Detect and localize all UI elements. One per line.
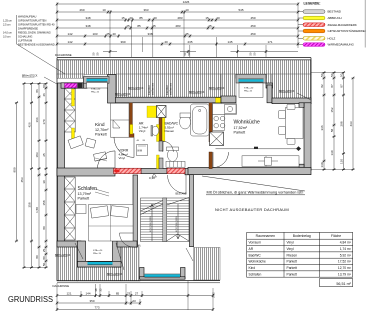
svg-text:50: 50 <box>96 52 100 55</box>
svg-text:25: 25 <box>42 153 46 157</box>
svg-text:GIPSKARTONPLATTEN: GIPSKARTONPLATTEN <box>18 19 47 23</box>
svg-text:Parkett: Parkett <box>287 260 298 264</box>
svg-text:LEGENDE:: LEGENDE: <box>304 2 321 6</box>
svg-text:17,52m²: 17,52m² <box>234 126 248 130</box>
svg-text:entfernen: entfernen <box>169 82 173 95</box>
svg-text:390: 390 <box>120 40 125 44</box>
svg-text:121: 121 <box>66 292 71 296</box>
svg-text:Fläche: Fläche <box>331 234 341 238</box>
svg-text:158: 158 <box>42 200 46 205</box>
svg-text:50: 50 <box>340 73 344 77</box>
svg-text:20: 20 <box>216 16 220 20</box>
svg-text:40: 40 <box>164 40 168 44</box>
svg-text:Raumnamen: Raumnamen <box>256 234 276 238</box>
svg-text:0,30: 0,30 <box>149 176 155 180</box>
svg-text:entfernen: entfernen <box>151 82 155 95</box>
svg-text:80: 80 <box>42 256 46 260</box>
svg-text:260: 260 <box>79 8 84 12</box>
svg-text:130: 130 <box>340 159 344 164</box>
svg-text:171: 171 <box>267 40 272 44</box>
svg-text:363: 363 <box>143 8 148 12</box>
svg-text:87: 87 <box>340 84 344 88</box>
svg-text:23: 23 <box>132 299 136 303</box>
svg-text:50: 50 <box>253 52 257 55</box>
svg-text:12,70 m²: 12,70 m² <box>338 266 352 270</box>
svg-text:10: 10 <box>102 8 106 12</box>
svg-text:3,0 cm: 3,0 cm <box>3 35 11 38</box>
svg-text:BESTAND: BESTAND <box>176 192 187 195</box>
svg-text:450: 450 <box>250 16 255 20</box>
svg-text:25: 25 <box>126 24 130 28</box>
svg-text:25: 25 <box>185 32 189 36</box>
svg-text:50: 50 <box>42 84 46 88</box>
svg-text:WANDAUFBAU: WANDAUFBAU <box>18 15 36 19</box>
svg-text:Mit Öl üblichen, di ganz Wärme: Mit Öl üblichen, di ganz Wärmedämmung vo… <box>207 191 304 195</box>
svg-text:Bodenbelag: Bodenbelag <box>293 234 311 238</box>
svg-text:Fliesen: Fliesen <box>287 253 298 257</box>
svg-text:2,5 cm: 2,5 cm <box>3 24 11 27</box>
svg-text:STB=+20: STB=+20 <box>93 250 103 252</box>
svg-text:56,51 m²: 56,51 m² <box>336 282 351 286</box>
svg-text:W.M: W.M <box>137 149 142 152</box>
svg-text:AR: AR <box>249 247 254 251</box>
svg-text:STB=+20: STB=+20 <box>244 87 254 89</box>
svg-text:Parkett: Parkett <box>287 266 298 270</box>
svg-text:27: 27 <box>135 292 139 296</box>
svg-text:4,84 m²: 4,84 m² <box>340 241 352 245</box>
svg-text:336: 336 <box>320 125 324 130</box>
svg-text:DACHRINNE: DACHRINNE <box>55 53 72 57</box>
svg-text:WÄRMEDÄMMUNG: WÄRMEDÄMMUNG <box>328 43 355 47</box>
svg-text:85: 85 <box>137 24 141 28</box>
svg-text:545: 545 <box>238 8 243 12</box>
svg-text:85: 85 <box>116 292 120 296</box>
svg-text:348: 348 <box>85 24 90 28</box>
svg-text:Wohnküche: Wohnküche <box>234 120 261 126</box>
svg-text:235: 235 <box>187 40 192 44</box>
svg-text:STB=+20: STB=+20 <box>91 88 101 90</box>
svg-text:ABBRUCH: ABBRUCH <box>328 16 342 20</box>
svg-text:Vinyl: Vinyl <box>119 156 126 160</box>
svg-text:142: 142 <box>67 32 72 36</box>
svg-text:183: 183 <box>35 152 39 157</box>
svg-text:Vinyl: Vinyl <box>139 129 146 133</box>
svg-text:Wohnküche: Wohnküche <box>249 260 267 264</box>
svg-text:Vinyl: Vinyl <box>287 247 294 251</box>
svg-text:453: 453 <box>20 177 24 182</box>
svg-text:1,58: 1,58 <box>35 207 39 213</box>
svg-text:30: 30 <box>42 180 46 184</box>
svg-text:80: 80 <box>35 255 39 259</box>
svg-text:350: 350 <box>89 299 94 303</box>
svg-text:RIEGEL DAZW. DÄMMUNG: RIEGEL DAZW. DÄMMUNG <box>18 30 51 34</box>
svg-text:25: 25 <box>152 24 156 28</box>
svg-text:46: 46 <box>42 93 46 97</box>
svg-text:17,52 m²: 17,52 m² <box>338 260 352 264</box>
svg-text:80: 80 <box>42 226 46 230</box>
svg-text:BESTEHENDE AUSSENWAND: BESTEHENDE AUSSENWAND <box>18 42 55 46</box>
svg-text:283: 283 <box>175 24 180 28</box>
svg-text:GIPSKARTONPLATTEN RD 40: GIPSKARTONPLATTEN RD 40 <box>18 23 55 27</box>
svg-text:450: 450 <box>250 32 255 36</box>
svg-text:Parkett: Parkett <box>95 133 107 137</box>
svg-text:Vinyl: Vinyl <box>287 241 294 245</box>
svg-text:ZIEGELMAUERWERK: ZIEGELMAUERWERK <box>328 23 357 27</box>
svg-text:DACHRINNE: DACHRINNE <box>53 284 70 288</box>
svg-text:23: 23 <box>127 292 131 296</box>
svg-text:12,70m²: 12,70m² <box>95 128 109 132</box>
svg-text:25: 25 <box>42 249 46 253</box>
svg-text:38: 38 <box>94 288 98 291</box>
svg-text:2,42: 2,42 <box>212 292 216 298</box>
svg-text:13,79 m²: 13,79 m² <box>338 272 352 276</box>
svg-text:20: 20 <box>153 16 157 20</box>
svg-text:426: 426 <box>28 122 32 127</box>
svg-text:50: 50 <box>92 52 96 55</box>
svg-text:13,79m²: 13,79m² <box>78 192 92 196</box>
svg-text:152: 152 <box>330 107 334 112</box>
svg-text:358: 358 <box>28 202 32 207</box>
svg-text:1,74 m²: 1,74 m² <box>340 247 352 251</box>
svg-text:5,92 m²: 5,92 m² <box>340 253 352 257</box>
svg-text:15: 15 <box>121 16 125 20</box>
svg-text:15: 15 <box>205 16 209 20</box>
svg-text:86: 86 <box>35 89 39 93</box>
svg-text:130: 130 <box>330 150 334 155</box>
svg-text:10: 10 <box>185 8 189 12</box>
svg-text:17 STG 17,6/29: 17 STG 17,6/29 <box>150 216 152 232</box>
svg-text:BESTAND: BESTAND <box>328 10 341 14</box>
svg-text:50: 50 <box>42 263 46 267</box>
svg-text:GRUNDRISS: GRUNDRISS <box>8 294 53 304</box>
svg-text:1,25 cm: 1,25 cm <box>3 20 12 23</box>
svg-text:298: 298 <box>340 121 344 126</box>
svg-text:HOLZ: HOLZ <box>328 36 336 40</box>
svg-text:Parkett: Parkett <box>78 197 90 201</box>
svg-text:50: 50 <box>249 52 253 55</box>
svg-text:25: 25 <box>106 32 110 36</box>
svg-text:GIPSKARTONSTÄNDERWERK: GIPSKARTONSTÄNDERWERK <box>328 29 366 33</box>
svg-text:50: 50 <box>330 73 334 77</box>
svg-text:338: 338 <box>147 32 152 36</box>
svg-text:909: 909 <box>13 167 17 172</box>
svg-text:17 STG 17,6/29: 17 STG 17,6/29 <box>176 216 178 232</box>
svg-text:14,0 cm: 14,0 cm <box>3 31 12 34</box>
svg-text:50: 50 <box>320 73 324 77</box>
svg-text:433: 433 <box>349 121 353 126</box>
svg-text:Vorraum: Vorraum <box>249 241 262 245</box>
svg-text:773: 773 <box>94 306 99 310</box>
svg-text:20: 20 <box>129 16 133 20</box>
svg-text:SCHALUNG: SCHALUNG <box>18 34 32 38</box>
svg-text:85: 85 <box>139 16 143 20</box>
svg-text:25: 25 <box>208 24 212 28</box>
svg-text:87: 87 <box>330 84 334 88</box>
svg-text:35: 35 <box>99 288 103 291</box>
svg-text:Fliesen: Fliesen <box>165 129 175 133</box>
svg-text:50: 50 <box>183 52 187 55</box>
svg-text:PB=+15: PB=+15 <box>93 253 102 255</box>
svg-text:164: 164 <box>35 117 39 122</box>
svg-text:283: 283 <box>177 16 182 20</box>
svg-text:450: 450 <box>250 24 255 28</box>
svg-text:130: 130 <box>320 162 324 167</box>
svg-text:145: 145 <box>227 40 232 44</box>
svg-text:82: 82 <box>320 84 324 88</box>
svg-text:170: 170 <box>42 119 46 124</box>
svg-text:PB=+15: PB=+15 <box>244 90 253 92</box>
svg-text:PB=+15: PB=+15 <box>91 91 100 93</box>
svg-text:NICHT AUSGEBAUTER DACHRAUM: NICHT AUSGEBAUTER DACHRAUM <box>215 207 289 212</box>
svg-text:Schlafen: Schlafen <box>249 272 262 276</box>
svg-text:144: 144 <box>85 292 90 296</box>
svg-text:1226: 1226 <box>183 0 190 4</box>
svg-text:142: 142 <box>67 40 72 44</box>
svg-text:103: 103 <box>92 32 97 36</box>
svg-text:Kind: Kind <box>249 266 256 270</box>
svg-text:DAMPFBREMSE: DAMPFBREMSE <box>18 26 38 30</box>
svg-text:50: 50 <box>187 52 191 55</box>
svg-text:58: 58 <box>330 129 334 133</box>
svg-text:40: 40 <box>112 32 116 36</box>
svg-text:Parkett: Parkett <box>287 272 298 276</box>
svg-text:Parkett: Parkett <box>234 130 246 134</box>
svg-text:20: 20 <box>143 140 146 142</box>
svg-text:Bad/WC: Bad/WC <box>249 253 262 257</box>
svg-text:40: 40 <box>137 140 140 142</box>
svg-text:LUFTRAUM: LUFTRAUM <box>18 38 32 42</box>
svg-text:348: 348 <box>85 16 90 20</box>
